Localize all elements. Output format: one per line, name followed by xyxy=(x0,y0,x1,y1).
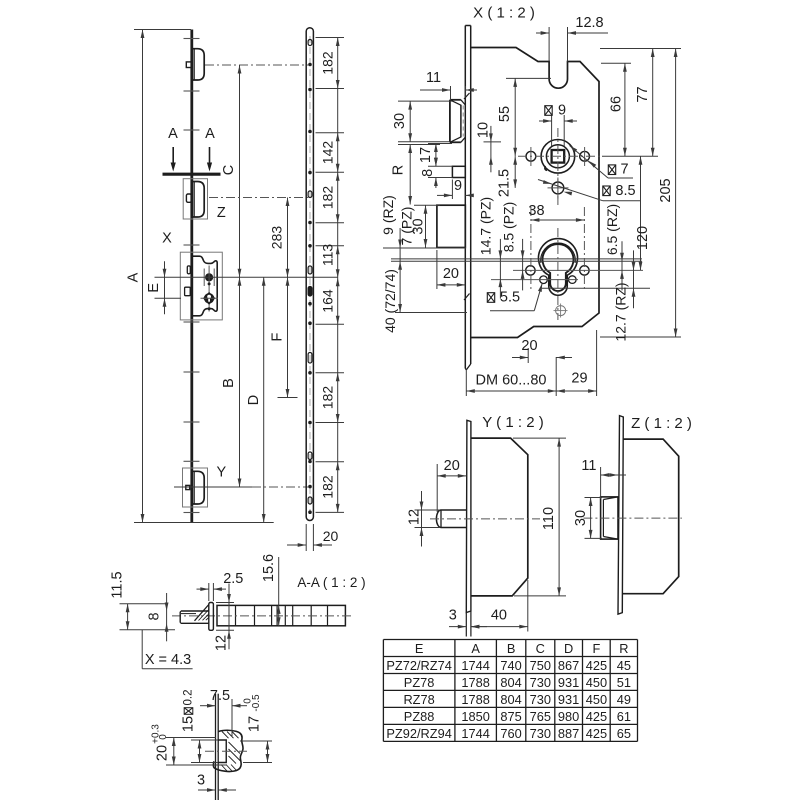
strip fixing hole 1 xyxy=(308,63,312,67)
svg-text:PZ78: PZ78 xyxy=(404,675,435,690)
strip slot 2 xyxy=(308,191,312,198)
label Z xyxy=(217,205,226,221)
left view cylinder cross tick xyxy=(201,297,219,299)
dimension 55 extension line xyxy=(506,77,551,79)
strip width 20 dimension xyxy=(287,543,332,547)
dimension 10 extension line xyxy=(484,141,502,143)
dimension 20 deadbolt line xyxy=(437,283,465,287)
strip fixing hole 11 xyxy=(308,460,312,464)
A-A bar segment line 6 xyxy=(292,605,294,625)
dimension B line xyxy=(238,277,242,487)
label Y xyxy=(216,465,226,481)
X view dash-dot vertical right xyxy=(583,207,585,292)
dimension 15.6 line xyxy=(277,557,281,626)
dimension C line xyxy=(238,65,242,277)
left view top latch trigger pin xyxy=(186,62,191,68)
dimension 11.5 line xyxy=(126,604,130,630)
label 7.5 xyxy=(210,688,230,704)
strip fixing hole 12 xyxy=(308,485,312,489)
X view follower outer circle xyxy=(541,140,575,174)
label X = 4.3 xyxy=(145,652,191,668)
label 6.5 (RZ) xyxy=(604,204,620,255)
svg-text:F: F xyxy=(270,332,286,341)
label 14.7 (PZ) xyxy=(478,197,494,255)
svg-text:15: 15 xyxy=(181,716,197,732)
Z view faceplate xyxy=(618,416,623,614)
svg-text:11: 11 xyxy=(581,458,596,474)
strip dimension extension line 2 xyxy=(316,88,345,90)
label 205 xyxy=(658,178,674,202)
strip slot 3 xyxy=(308,266,312,274)
dimension square 9 line xyxy=(539,119,577,123)
profile hatching xyxy=(221,732,241,772)
label 30 Z xyxy=(573,510,589,526)
dimension 205 bottom extension xyxy=(600,336,681,338)
svg-text:1788: 1788 xyxy=(461,675,489,690)
strip dimension extension line 10 xyxy=(316,461,345,463)
dimension 40 (72/74) bottom extension xyxy=(395,312,467,314)
dimension 2.5 line xyxy=(197,587,227,591)
label A xyxy=(126,272,142,282)
dimension 20 pin extension xyxy=(436,464,438,512)
X = 4.3 leader xyxy=(142,630,192,669)
left view lock case outline xyxy=(193,256,218,316)
svg-text:D: D xyxy=(564,641,573,656)
X view follower vertical centerline xyxy=(557,128,559,208)
dimension DM extension left xyxy=(465,370,467,396)
svg-text:11: 11 xyxy=(426,70,441,86)
svg-text:980: 980 xyxy=(558,709,579,724)
strip slot 1 xyxy=(308,40,312,46)
table grid xyxy=(383,640,637,742)
strip fixing hole 2 xyxy=(308,88,312,92)
strip dimension extension line 9 xyxy=(316,422,345,424)
dimension E extension line xyxy=(155,297,182,299)
A-A bar segment line 1 xyxy=(235,605,237,625)
dimension 30 deadbolt line xyxy=(424,205,428,247)
svg-text:29: 29 xyxy=(571,371,587,387)
svg-text:A-A ( 1 : 2 ): A-A ( 1 : 2 ) xyxy=(297,575,365,590)
strip dimension extension line 1 xyxy=(316,37,345,39)
X view dash-dot vertical left xyxy=(530,207,532,292)
dimension 12.8 line xyxy=(536,31,608,35)
profile centerline xyxy=(205,750,247,752)
svg-text:45: 45 xyxy=(617,658,631,673)
Z view centerline xyxy=(583,517,682,519)
label strip 182 xyxy=(319,186,335,210)
label diameter 8.5 xyxy=(603,183,636,199)
dimension 9 extension xyxy=(451,180,453,200)
svg-text:425: 425 xyxy=(586,709,607,724)
dimension 110 line xyxy=(557,438,561,596)
dimension R line xyxy=(408,145,412,205)
Z view latch front xyxy=(601,497,618,539)
svg-text:6.5 (RZ): 6.5 (RZ) xyxy=(604,204,620,255)
svg-text:450: 450 xyxy=(586,675,607,690)
svg-text:X: X xyxy=(162,230,172,246)
label strip 182 xyxy=(319,51,335,75)
X view follower inner circle xyxy=(546,145,569,168)
dimension 17 extensions xyxy=(428,144,452,167)
left view top latch face line xyxy=(193,49,195,80)
dimension 11 extension lines xyxy=(451,86,466,100)
left view top latch centerline xyxy=(205,64,308,66)
detail Z latch pin xyxy=(186,194,191,202)
left view follower hub xyxy=(205,273,213,281)
A-A bar segment line 5 xyxy=(284,605,286,625)
X view cylinder screw hole left xyxy=(526,266,535,275)
dimension 3 profile line xyxy=(198,788,236,792)
svg-text:7.5: 7.5 xyxy=(210,688,230,704)
strip slot 5 xyxy=(308,353,312,364)
dimension 40 case line xyxy=(471,625,528,629)
svg-text:20: 20 xyxy=(444,458,460,474)
svg-text:7: 7 xyxy=(620,162,628,178)
A-A latch flange xyxy=(209,603,214,631)
X view 5.5 hole left xyxy=(540,276,548,284)
dimension 8 line xyxy=(434,158,438,188)
svg-text:8: 8 xyxy=(420,169,436,177)
svg-text:730: 730 xyxy=(530,692,551,707)
svg-text:425: 425 xyxy=(586,658,607,673)
profile keeper blob xyxy=(213,730,243,771)
label DM 60...80 xyxy=(476,373,547,389)
dimension 38 line xyxy=(531,218,585,222)
svg-text:66: 66 xyxy=(609,96,625,112)
svg-text:12: 12 xyxy=(214,635,230,651)
A-A latch body xyxy=(180,611,209,623)
svg-text:8.5: 8.5 xyxy=(615,183,635,199)
left view faceplate joint tick 3 xyxy=(184,129,200,131)
dimension 30 Z extensions xyxy=(585,498,603,539)
svg-text:Z: Z xyxy=(217,205,226,221)
Z view case outline xyxy=(623,439,679,594)
X view screw hole row line xyxy=(513,269,643,271)
svg-text:14.7 (PZ): 14.7 (PZ) xyxy=(478,197,494,255)
dimension 30 Z line xyxy=(589,498,593,539)
dimension R extension xyxy=(398,144,440,146)
dimension E line xyxy=(163,261,167,314)
X view latch bolt xyxy=(450,100,465,143)
label A right arrow xyxy=(205,126,215,142)
Y view latch pin xyxy=(436,510,466,528)
svg-text:283: 283 xyxy=(269,226,285,250)
svg-text:110: 110 xyxy=(541,507,557,530)
strip fixing hole 9 xyxy=(308,371,312,375)
X view hole witness ticks xyxy=(531,147,585,199)
svg-text:20: 20 xyxy=(323,528,339,544)
dimension 120 line xyxy=(639,156,643,270)
profile faceplate lines xyxy=(216,694,219,800)
svg-text:Z ( 1 : 2 ): Z ( 1 : 2 ) xyxy=(631,415,692,432)
dimension 77 extension line xyxy=(600,48,681,50)
label 20 deadbolt xyxy=(443,266,459,282)
detail X boundary box xyxy=(180,252,222,320)
X view 5.5 hole right xyxy=(569,276,577,284)
detail Y latch housing xyxy=(193,471,205,504)
left view faceplate main edge line xyxy=(190,30,193,523)
svg-text:12: 12 xyxy=(407,509,423,525)
strip slot 7 xyxy=(308,497,312,504)
svg-text:931: 931 xyxy=(558,675,579,690)
svg-text:0: 0 xyxy=(158,734,169,740)
svg-text:730: 730 xyxy=(530,726,551,741)
svg-text:20: 20 xyxy=(155,745,171,761)
dimension 20 pin line xyxy=(437,474,466,478)
X view PZ lower reference line xyxy=(391,260,642,262)
label 17 tol xyxy=(243,694,263,732)
label 15.6 xyxy=(261,554,277,582)
svg-text:E: E xyxy=(415,641,424,656)
dimension 11 Z line xyxy=(601,473,626,477)
left view faceplate joint tick 7 xyxy=(184,421,200,423)
A-A bar segment line 7 xyxy=(310,605,312,625)
strip width 20 extension lines xyxy=(306,524,313,551)
strip dimension extension line 3 xyxy=(316,132,345,134)
dimension 8 extension xyxy=(428,177,452,179)
label 3 faceplate xyxy=(449,608,457,624)
dimension 66 line xyxy=(623,63,627,156)
label D xyxy=(246,395,262,405)
svg-text:A: A xyxy=(126,272,142,282)
dimension 21.5 line xyxy=(513,156,517,188)
section cut line A-A xyxy=(163,173,221,176)
dimension A extension line top xyxy=(134,29,191,31)
strip fixing hole 5 xyxy=(308,221,312,225)
label 40 (72/74) xyxy=(382,269,398,333)
svg-text:8: 8 xyxy=(147,612,163,620)
X view follower square hole xyxy=(552,150,565,163)
label A left arrow xyxy=(168,126,178,142)
svg-text:142: 142 xyxy=(319,141,335,165)
dimension 17 extensions xyxy=(240,741,272,763)
label 21.5 xyxy=(497,169,513,197)
svg-text:B: B xyxy=(507,641,516,656)
X view euro cylinder inner profile xyxy=(543,244,574,291)
dimension 30 latch line xyxy=(408,101,412,142)
svg-text:40 (72/74): 40 (72/74) xyxy=(382,269,398,333)
svg-text:R: R xyxy=(619,641,628,656)
svg-text:30: 30 xyxy=(392,113,408,129)
svg-text:20: 20 xyxy=(521,338,537,354)
X view hole left of follower xyxy=(526,151,536,161)
svg-text:17: 17 xyxy=(247,716,263,732)
detail Y latch face line xyxy=(193,471,195,504)
label diameter 7 xyxy=(608,162,628,178)
strip dimension extension line 8 xyxy=(316,372,345,374)
detail Y boundary box xyxy=(183,468,208,507)
label strip 182 xyxy=(319,475,335,499)
Y view centerline xyxy=(430,518,540,520)
label 20 strip width xyxy=(323,528,339,544)
svg-text:-0.5: -0.5 xyxy=(251,694,262,712)
svg-text:15.6: 15.6 xyxy=(261,554,277,582)
svg-text:804: 804 xyxy=(500,692,521,707)
dimension 40 case extension xyxy=(527,580,529,632)
follower center reference line xyxy=(155,276,338,278)
svg-text:730: 730 xyxy=(530,675,551,690)
X view euro cylinder outer profile xyxy=(539,239,578,296)
strip fixing hole 13 xyxy=(308,510,312,514)
label strip 113 xyxy=(319,244,335,267)
svg-text:Y ( 1 : 2 ): Y ( 1 : 2 ) xyxy=(482,414,543,431)
svg-text:1788: 1788 xyxy=(461,692,489,707)
left view top latch housing xyxy=(193,49,205,80)
svg-text:113: 113 xyxy=(319,244,335,267)
svg-text:C: C xyxy=(221,165,237,175)
section arrow A right xyxy=(207,147,212,172)
strip dimension 182 arrows xyxy=(336,373,340,423)
dimension 8 A-A line xyxy=(165,593,169,641)
svg-text:30: 30 xyxy=(573,510,589,526)
strip dimension extension line 7 xyxy=(316,323,345,325)
svg-text:3: 3 xyxy=(197,773,205,789)
svg-text:164: 164 xyxy=(319,289,335,313)
dimension 55 line xyxy=(513,78,517,156)
X view cylinder screw hole right xyxy=(580,266,589,275)
svg-text:3: 3 xyxy=(449,608,457,624)
A-A bar segment line 2 xyxy=(254,605,256,625)
dimension 12.8 extension lines xyxy=(549,27,567,62)
dimension 30 deadbolt extension xyxy=(414,204,440,206)
svg-text:931: 931 xyxy=(558,692,579,707)
X view case outline xyxy=(471,48,599,338)
dimension 7(PZ)/9(RZ) line xyxy=(398,228,402,313)
svg-text:65: 65 xyxy=(617,726,631,741)
label strip 164 xyxy=(319,289,335,313)
left view faceplate slot upper xyxy=(187,266,190,274)
dimension A line xyxy=(141,30,145,523)
dimension 17 line xyxy=(266,741,270,763)
dimension 29 case extension xyxy=(596,330,598,396)
label 11 xyxy=(426,70,441,86)
svg-text:867: 867 xyxy=(558,658,579,673)
detail Y centerline xyxy=(174,486,308,488)
label 38 xyxy=(528,203,544,219)
svg-text:A: A xyxy=(168,126,178,142)
svg-text:R: R xyxy=(391,165,407,175)
dimension 11.5 extensions xyxy=(120,604,176,630)
X view 5.5 hole row line xyxy=(491,279,578,281)
left view follower vertical centerline xyxy=(208,266,210,312)
strip fixing hole 10 xyxy=(308,421,312,425)
strip faceplate outline xyxy=(306,28,313,521)
strip dimension extension line 6 xyxy=(316,245,345,247)
svg-text:DM 60...80: DM 60...80 xyxy=(476,373,547,389)
profile channel xyxy=(218,740,226,763)
strip fixing hole 8 xyxy=(308,321,312,325)
diameter 8.5 leader xyxy=(538,180,641,201)
svg-text:804: 804 xyxy=(500,675,521,690)
svg-text:425: 425 xyxy=(586,726,607,741)
dimension A extension line bottom xyxy=(134,522,274,524)
dimension DM cylinder extension xyxy=(555,357,557,396)
label 9 aux xyxy=(454,178,462,194)
dimension 30 latch extensions xyxy=(398,101,452,142)
svg-text:+0.3: +0.3 xyxy=(151,724,162,744)
label 10 xyxy=(476,122,492,138)
label 12.8 xyxy=(575,15,603,31)
label 11.5 xyxy=(110,571,126,598)
X view PZ upper reference line xyxy=(391,258,642,260)
svg-text:D: D xyxy=(246,395,262,405)
label 9 (RZ) xyxy=(380,195,396,235)
svg-text:PZ92/RZ94: PZ92/RZ94 xyxy=(386,726,451,741)
label X (1:2) xyxy=(473,5,535,22)
label 8.5 (PZ) xyxy=(501,202,517,253)
label 66 xyxy=(609,96,625,112)
label Z (1:2) xyxy=(631,415,692,432)
left view cylinder nut diamond xyxy=(203,292,215,305)
svg-text:RZ78: RZ78 xyxy=(403,692,434,707)
dimension 20 cylinder extension xyxy=(527,348,529,363)
svg-text:20: 20 xyxy=(443,266,459,282)
strip dimension 113 arrows xyxy=(336,246,340,278)
dimension 8.5 (PZ) line xyxy=(521,239,525,291)
detail Z boundary box xyxy=(183,179,207,219)
label square 9 xyxy=(545,103,566,119)
svg-text:9: 9 xyxy=(454,178,462,194)
svg-text:182: 182 xyxy=(319,475,335,499)
svg-text:2.5: 2.5 xyxy=(223,571,243,587)
X view euro cylinder clearance arc xyxy=(541,243,576,263)
label X xyxy=(162,230,172,246)
detail Z centerline xyxy=(209,197,308,199)
svg-text:61: 61 xyxy=(617,709,631,724)
label 30 deadbolt xyxy=(411,218,427,234)
left view dot below cylinder xyxy=(208,307,211,310)
dimension F bottom extension xyxy=(278,397,298,399)
svg-text:12.7 (RZ): 12.7 (RZ) xyxy=(613,282,629,341)
svg-text:X ( 1 : 2 ): X ( 1 : 2 ) xyxy=(473,5,535,22)
dimension 29 line xyxy=(556,389,596,393)
Y view faceplate xyxy=(466,420,471,612)
label 15 tol xyxy=(181,690,197,733)
dimension 12 pin extensions xyxy=(415,510,441,528)
svg-text:40: 40 xyxy=(491,608,507,624)
label C xyxy=(221,165,237,175)
dimension 12 A-A line xyxy=(227,584,231,650)
svg-text:38: 38 xyxy=(528,203,544,219)
A-A faceplate bar xyxy=(217,605,345,625)
strip fixing hole 3 xyxy=(308,130,312,134)
svg-text:1744: 1744 xyxy=(461,726,489,741)
label 77 xyxy=(635,86,651,102)
svg-text:55: 55 xyxy=(497,106,513,122)
left view faceplate joint tick 2 xyxy=(184,90,200,92)
dimension 12 A-A extensions xyxy=(216,603,234,631)
left view faceplate slot lower xyxy=(185,287,191,296)
dimension 11 line xyxy=(420,88,477,92)
A-A centerline xyxy=(172,615,352,617)
dimension 15 extensions xyxy=(191,740,218,763)
svg-text:9: 9 xyxy=(558,103,566,119)
detail Z latch housing xyxy=(193,182,205,218)
svg-text:PZ72/RZ74: PZ72/RZ74 xyxy=(386,658,451,673)
dimension square 9 extension lines xyxy=(552,115,565,146)
svg-text:765: 765 xyxy=(530,709,551,724)
strip dimension 182 arrows xyxy=(336,38,340,89)
label A-A (1:2) xyxy=(297,575,365,590)
svg-text:C: C xyxy=(536,641,545,656)
strip slot 6 xyxy=(308,452,312,460)
X view follower extension right xyxy=(602,155,658,157)
label 40 case xyxy=(491,608,507,624)
X view faceplate weld tick xyxy=(464,93,470,300)
strip dimension 182 arrows xyxy=(336,462,340,513)
svg-text:740: 740 xyxy=(500,658,521,673)
svg-text:8.5 (PZ): 8.5 (PZ) xyxy=(501,202,517,253)
